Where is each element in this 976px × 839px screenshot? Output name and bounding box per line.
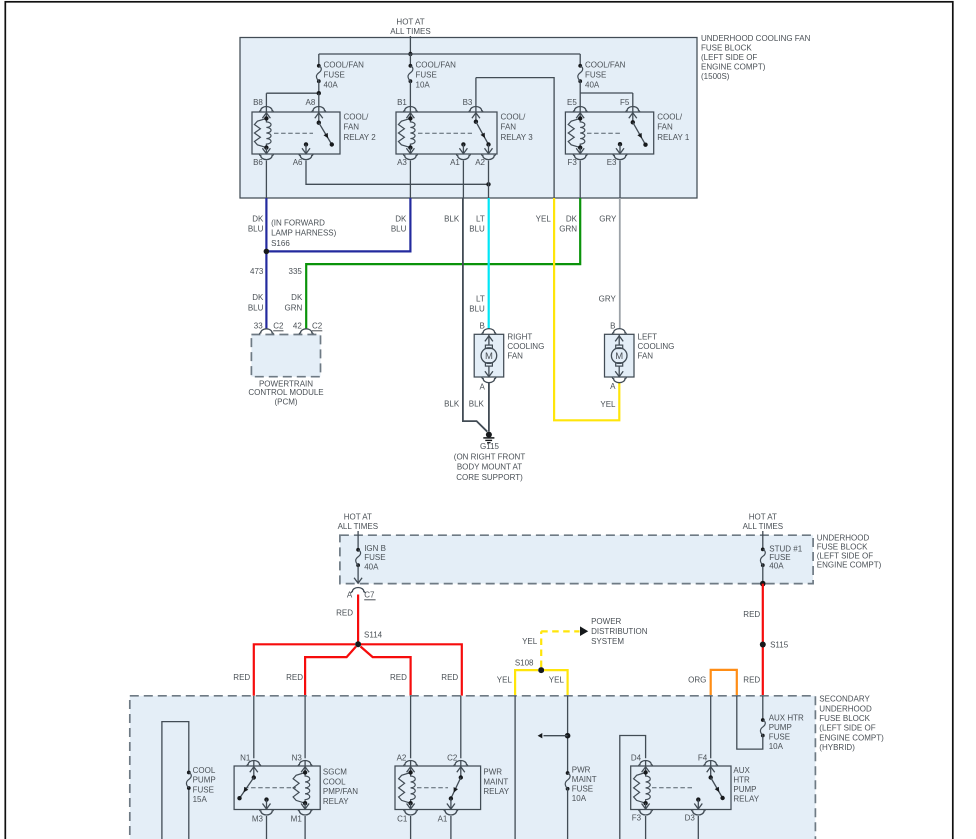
svg-text:S114: S114 — [364, 631, 383, 640]
svg-text:BLK: BLK — [469, 399, 485, 408]
label BLK pair — [444, 399, 484, 408]
svg-text:DISTRIBUTION: DISTRIBUTION — [591, 627, 648, 636]
svg-text:S108: S108 — [515, 658, 534, 667]
svg-text:(1500S): (1500S) — [701, 72, 730, 81]
wire: RED S114 mid-left branch — [305, 647, 356, 696]
wire: N1 feed inside block — [253, 696, 255, 759]
PCM pin 42 C2 — [293, 322, 323, 335]
svg-text:C2: C2 — [312, 322, 323, 331]
svg-text:M: M — [615, 351, 623, 362]
PWR MAINT relay contact A1 — [447, 799, 455, 810]
svg-text:SYSTEM: SYSTEM — [591, 637, 624, 646]
wire: E3 inside block — [619, 161, 621, 199]
svg-text:E5: E5 — [567, 98, 577, 107]
svg-text:335: 335 — [289, 267, 303, 276]
svg-text:BODY MOUNT AT: BODY MOUNT AT — [457, 463, 522, 472]
label ORG — [688, 676, 706, 685]
svg-text:HOT AT: HOT AT — [344, 513, 372, 522]
node: HOT AT ALL TIMES (IGN B feed) — [338, 513, 378, 532]
label YEL (dashed) — [522, 637, 538, 646]
fuse: COOL/FAN FUSE 40A (right) — [578, 54, 626, 93]
svg-text:PUMP: PUMP — [733, 785, 756, 794]
svg-text:COOL/: COOL/ — [657, 113, 683, 122]
svg-text:42: 42 — [293, 322, 302, 331]
wire: DK BLU from B6 to PCM pin 33 (ckt 473) — [265, 198, 267, 330]
svg-text:M3: M3 — [252, 815, 264, 824]
svg-text:(IN FORWARD: (IN FORWARD — [271, 218, 325, 227]
svg-text:40A: 40A — [585, 81, 600, 90]
label RED (lower) — [743, 676, 760, 685]
label LT BLU (A2) — [469, 215, 485, 234]
left fan pin A — [610, 377, 626, 391]
svg-text:33: 33 — [254, 322, 263, 331]
relay COOL/FAN RELAY 2 (box) — [252, 112, 376, 154]
svg-text:FUSE BLOCK: FUSE BLOCK — [701, 43, 752, 52]
svg-text:DK: DK — [566, 215, 578, 224]
relay 3 contact A1 — [459, 142, 467, 154]
svg-text:PMP/FAN: PMP/FAN — [323, 787, 358, 796]
relay 1 pin E3 cup — [607, 154, 627, 167]
label DK BLU (A3) — [391, 215, 407, 234]
wire: fuse3 to E5/F5 branch — [580, 93, 633, 107]
AUX relay pin F3 — [632, 803, 653, 839]
wire: RED continuation to AUX HTR PUMP FUSE — [762, 696, 764, 720]
svg-text:ORG: ORG — [688, 676, 706, 685]
wire: A2 feed inside block — [410, 696, 412, 759]
svg-text:D4: D4 — [631, 753, 642, 762]
svg-text:A1: A1 — [438, 815, 448, 824]
underhood fuse block (dashed box) — [340, 533, 882, 583]
wire: RED from connector A to S114 — [357, 595, 359, 645]
svg-text:40A: 40A — [324, 81, 339, 90]
fuse: IGN B FUSE 40A — [356, 544, 386, 571]
relay 3 pin B3 — [463, 98, 483, 122]
svg-text:COOLING: COOLING — [507, 342, 544, 351]
svg-text:PWR: PWR — [572, 765, 591, 774]
svg-text:RELAY 3: RELAY 3 — [501, 133, 534, 142]
svg-text:RED: RED — [336, 609, 353, 618]
wire: AUX fuse out to ORG loop — [737, 696, 763, 749]
svg-text:FUSE: FUSE — [769, 732, 790, 741]
label DK GRN (lower) — [285, 293, 303, 312]
svg-text:GRY: GRY — [599, 215, 617, 224]
relay 2 coil — [254, 116, 271, 150]
relay 1 coil — [568, 116, 585, 150]
relay 3 pin A1 cup — [450, 154, 470, 167]
svg-text:C7: C7 — [364, 591, 375, 600]
SGCM contact M3 — [263, 797, 271, 809]
wire: B3 pin riser — [475, 78, 477, 101]
svg-text:B8: B8 — [253, 98, 263, 107]
svg-text:COOL/FAN: COOL/FAN — [585, 61, 626, 70]
svg-text:HOT AT: HOT AT — [396, 18, 424, 27]
svg-text:S115: S115 — [770, 641, 789, 650]
svg-text:RELAY: RELAY — [483, 787, 509, 796]
relay 3 pin A2 — [475, 145, 495, 167]
wire: YEL S108 right branch — [544, 670, 568, 696]
wire: N3 feed inside block — [304, 696, 306, 759]
svg-text:LT: LT — [476, 215, 485, 224]
PWR MAINT relay pin C1 — [397, 803, 418, 839]
wire: B6 inside block — [265, 161, 267, 199]
svg-text:LAMP HARNESS): LAMP HARNESS) — [271, 229, 337, 238]
svg-text:A1: A1 — [450, 158, 460, 167]
ground G115 — [454, 432, 526, 482]
label BLK (A1) — [444, 215, 460, 224]
svg-text:ALL TIMES: ALL TIMES — [390, 27, 430, 36]
svg-text:POWER: POWER — [591, 617, 621, 626]
svg-text:ALL TIMES: ALL TIMES — [338, 522, 378, 531]
svg-text:COOLING: COOLING — [638, 342, 675, 351]
PWR MAINT relay coil — [399, 770, 416, 805]
svg-text:FAN: FAN — [344, 123, 360, 132]
PWR MAINT relay pin A2 — [397, 753, 418, 772]
svg-text:G115: G115 — [480, 442, 500, 451]
svg-text:COOL/: COOL/ — [344, 113, 370, 122]
PWR MAINT relay pin C2 — [447, 753, 468, 777]
junction S166 — [264, 218, 337, 254]
svg-text:MAINT: MAINT — [572, 775, 597, 784]
SGCM pin M1 — [291, 803, 313, 839]
svg-text:C1: C1 — [397, 815, 408, 824]
svg-text:DK: DK — [291, 293, 303, 302]
svg-text:M1: M1 — [291, 815, 303, 824]
svg-text:(PCM): (PCM) — [274, 398, 297, 407]
labels YEL pair — [497, 676, 565, 685]
label DK BLU (lower left) — [248, 293, 264, 312]
wire: IGN B fuse to connector A — [354, 565, 362, 583]
svg-text:LEFT: LEFT — [638, 333, 658, 342]
relay 2 switch blade — [317, 121, 334, 147]
svg-text:GRY: GRY — [599, 295, 617, 304]
wire: DK BLU from A3 to S166 — [269, 198, 410, 251]
wire: RED S114 left branch — [254, 644, 355, 696]
svg-text:BLU: BLU — [469, 225, 485, 234]
fuse: COOL/FAN FUSE 40A (left) — [316, 54, 364, 93]
svg-text:IGN B: IGN B — [364, 544, 386, 553]
svg-text:RED: RED — [233, 673, 250, 682]
svg-text:F4: F4 — [698, 753, 708, 762]
wire: A1 inside block — [462, 161, 464, 199]
svg-text:LT: LT — [476, 295, 485, 304]
svg-text:FAN: FAN — [507, 351, 523, 360]
svg-text:A: A — [347, 591, 353, 600]
svg-text:C2: C2 — [273, 322, 284, 331]
svg-text:D3: D3 — [685, 814, 696, 823]
AUX relay contact D3 — [694, 797, 702, 809]
relay PWR MAINT RELAY (box) — [395, 766, 510, 810]
svg-text:COOL: COOL — [323, 777, 346, 786]
svg-text:RED: RED — [441, 673, 458, 682]
relay 3 pin B1 — [397, 98, 417, 118]
relay 1 contact E3 — [616, 142, 624, 154]
relay 1 switch blade — [631, 120, 648, 147]
SGCM pin N3 — [292, 753, 313, 772]
PCM pin 33 C2 — [254, 322, 284, 335]
svg-text:RED: RED — [390, 673, 407, 682]
PWR MAINT relay pin A1 cup — [438, 810, 458, 839]
svg-text:ENGINE COMPT): ENGINE COMPT) — [817, 560, 882, 569]
svg-text:GRN: GRN — [285, 303, 303, 312]
wire: DK GRN from F3 to PCM pin 42 (ckt 335) — [306, 198, 580, 330]
motor: LEFT COOLING FAN — [605, 333, 675, 377]
svg-text:AUX: AUX — [733, 766, 750, 775]
wire: RED S114 mid-right branch — [361, 647, 411, 696]
svg-text:UNDERHOOD COOLING FAN: UNDERHOOD COOLING FAN — [701, 34, 811, 43]
svg-text:N3: N3 — [292, 753, 303, 762]
relay 2 pin B6 — [253, 148, 273, 167]
svg-text:N1: N1 — [240, 753, 251, 762]
junction + arrow tap — [538, 733, 571, 739]
relay 2 pin A8 — [306, 98, 326, 123]
svg-text:GRN: GRN — [559, 225, 577, 234]
svg-text:DK: DK — [252, 215, 264, 224]
svg-text:FUSE: FUSE — [324, 71, 345, 80]
SGCM pin M3 cup — [252, 810, 274, 839]
relay 3 pin A3 — [397, 148, 417, 167]
svg-text:BLU: BLU — [391, 225, 407, 234]
wire: C2 feed inside block — [460, 696, 462, 759]
svg-text:B6: B6 — [253, 158, 263, 167]
wire: YEL-2 to PWR MAINT FUSE — [567, 696, 569, 773]
wire: ORG jumper loop — [711, 670, 737, 696]
wire: B3 feed jog (up-over-down to YEL exit) — [476, 78, 554, 198]
svg-text:AUX HTR: AUX HTR — [769, 714, 804, 723]
AUX relay pin D4 — [631, 753, 653, 772]
labels RED x4 — [233, 673, 458, 682]
svg-text:FUSE BLOCK: FUSE BLOCK — [817, 542, 868, 551]
wire: F4 feed inside block — [710, 696, 712, 759]
svg-text:C2: C2 — [447, 753, 458, 762]
svg-text:YEL: YEL — [522, 637, 538, 646]
relay SGCM COOL PMP/FAN RELAY (box) — [234, 766, 358, 810]
svg-text:YEL: YEL — [549, 676, 565, 685]
svg-text:BLK: BLK — [444, 215, 460, 224]
relay 2 contact to A6 — [302, 142, 310, 154]
svg-text:ENGINE COMPT): ENGINE COMPT) — [819, 733, 884, 742]
svg-text:FAN: FAN — [638, 351, 654, 360]
svg-text:HTR: HTR — [733, 775, 750, 784]
svg-text:CONTROL MODULE: CONTROL MODULE — [248, 388, 323, 397]
svg-text:RELAY: RELAY — [733, 795, 759, 804]
svg-text:BLU: BLU — [248, 225, 264, 234]
svg-text:YEL: YEL — [600, 400, 616, 409]
svg-text:ENGINE COMPT): ENGINE COMPT) — [701, 63, 766, 72]
svg-text:RIGHT: RIGHT — [507, 333, 532, 342]
svg-text:SECONDARY: SECONDARY — [819, 695, 870, 704]
svg-text:A8: A8 — [306, 98, 316, 107]
svg-text:B1: B1 — [397, 98, 407, 107]
relay 1 pin F3 — [567, 148, 587, 167]
svg-text:A3: A3 — [397, 158, 407, 167]
relay 2 pin A6 cup — [293, 154, 313, 167]
svg-text:DK: DK — [395, 215, 407, 224]
junction S115 — [760, 641, 789, 650]
wire: feed from HOT AT ALL TIMES into block — [408, 36, 412, 56]
AUX relay pin D3 cup — [685, 810, 706, 839]
svg-text:COOL/FAN: COOL/FAN — [416, 61, 457, 70]
svg-text:(ON RIGHT FRONT: (ON RIGHT FRONT — [454, 453, 526, 462]
fuse: COOL PUMP FUSE 15A — [186, 766, 215, 804]
junction S108 — [515, 658, 544, 673]
svg-text:A: A — [479, 382, 485, 391]
svg-text:UNDERHOOD: UNDERHOOD — [819, 704, 872, 713]
svg-text:A6: A6 — [293, 158, 303, 167]
label POWER DISTRIBUTION SYSTEM — [591, 617, 648, 646]
svg-text:(LEFT SIDE OF: (LEFT SIDE OF — [701, 53, 757, 62]
fuse: AUX HTR PUMP FUSE 10A — [760, 714, 804, 751]
svg-text:FUSE: FUSE — [572, 785, 593, 794]
left fan pin B — [610, 321, 626, 334]
svg-text:FUSE: FUSE — [364, 553, 385, 562]
relay 3 coil — [398, 116, 415, 150]
svg-text:RELAY 2: RELAY 2 — [344, 133, 377, 142]
AUX relay switch blade — [709, 775, 725, 800]
wire: GRY from E3 to left fan pin B — [619, 198, 621, 329]
label GRY (lower) — [599, 295, 617, 304]
PWR MAINT relay switch blade — [449, 775, 463, 800]
right fan pin A — [479, 377, 496, 391]
AUX relay pin F4 — [698, 753, 718, 777]
label 335 — [289, 267, 303, 276]
wire: cool pump fuse loop — [162, 722, 189, 839]
junction S114 — [355, 631, 383, 648]
svg-text:COOL: COOL — [193, 766, 216, 775]
svg-text:E3: E3 — [607, 158, 617, 167]
label DK BLU (left) — [248, 215, 264, 234]
svg-text:(LEFT SIDE OF: (LEFT SIDE OF — [817, 551, 873, 560]
relay COOL/FAN RELAY 1 (box) — [565, 112, 690, 154]
svg-text:(LEFT SIDE OF: (LEFT SIDE OF — [819, 724, 875, 733]
wire: YEL from block to left fan pin A — [554, 198, 619, 420]
svg-text:10A: 10A — [416, 81, 431, 90]
label RED (C7) — [336, 609, 353, 618]
AUX relay coil — [634, 770, 651, 805]
svg-text:COOL/: COOL/ — [501, 113, 527, 122]
svg-text:STUD #1: STUD #1 — [769, 544, 802, 553]
motor: RIGHT COOLING FAN — [474, 333, 544, 377]
svg-text:B: B — [610, 321, 615, 330]
wire: D4 feed riser — [620, 736, 646, 839]
svg-text:40A: 40A — [769, 562, 784, 571]
wire: A6 to A2 jog — [306, 161, 491, 187]
svg-text:10A: 10A — [769, 742, 784, 751]
SGCM switch blade — [237, 775, 256, 800]
svg-text:B3: B3 — [463, 98, 473, 107]
node: HOT AT ALL TIMES (STUD 1 feed) — [743, 513, 783, 532]
wire: YEL-1 inside block — [514, 696, 516, 839]
svg-text:RELAY: RELAY — [323, 797, 349, 806]
label YEL (top) — [536, 215, 552, 224]
fuse: PWR MAINT FUSE 10A — [565, 765, 597, 839]
svg-text:FAN: FAN — [501, 123, 517, 132]
svg-text:MAINT: MAINT — [483, 777, 508, 786]
svg-text:FUSE BLOCK: FUSE BLOCK — [819, 714, 870, 723]
svg-text:F3: F3 — [567, 158, 577, 167]
secondary underhood fuse block (dashed box) — [130, 695, 884, 839]
wire: F3 inside block — [579, 161, 581, 199]
svg-text:S166: S166 — [271, 239, 290, 248]
svg-text:B: B — [479, 321, 484, 330]
svg-text:RELAY 1: RELAY 1 — [657, 133, 690, 142]
svg-text:(HYBRID): (HYBRID) — [819, 743, 855, 752]
wire: fuse1 to B8/A8 branch — [266, 91, 321, 107]
svg-text:BLU: BLU — [248, 303, 264, 312]
svg-text:473: 473 — [250, 267, 264, 276]
wire: bus between fuses — [319, 53, 580, 55]
svg-text:A: A — [610, 382, 616, 391]
wire: BLK from A1 to ground splice — [463, 198, 487, 432]
svg-text:FUSE: FUSE — [769, 553, 790, 562]
wire: RED S114 right branch — [361, 644, 462, 696]
relay AUX HTR PUMP RELAY (box) — [631, 766, 760, 810]
label LT BLU (lower) — [469, 295, 485, 314]
wire: RED from STUD1 to S115 and into block — [762, 584, 764, 696]
underhood cooling fan fuse block (box) — [240, 38, 697, 199]
svg-text:RED: RED — [743, 676, 760, 685]
node: HOT AT ALL TIMES (top feed) — [390, 18, 430, 37]
wire: feed into STUD 1 fuse — [762, 531, 764, 549]
label DK GRN (F3) — [559, 215, 577, 234]
svg-text:YEL: YEL — [536, 215, 552, 224]
label: underhood cooling fan fuse block — [701, 34, 811, 81]
svg-text:F5: F5 — [620, 98, 630, 107]
wire: A2 inside block — [488, 161, 490, 199]
svg-text:M: M — [485, 351, 493, 362]
svg-text:FUSE: FUSE — [193, 785, 214, 794]
fuse: COOL/FAN FUSE 10A (middle) — [408, 54, 456, 107]
connector pin A / C7 — [347, 588, 376, 600]
relay 3 switch blade — [474, 120, 491, 147]
label RED (stud) — [743, 610, 760, 619]
right fan pin B — [479, 321, 496, 334]
svg-text:CORE SUPPORT): CORE SUPPORT) — [456, 473, 523, 482]
svg-text:BLK: BLK — [444, 399, 460, 408]
relay 1 pin E5 — [567, 98, 587, 118]
svg-text:15A: 15A — [193, 795, 208, 804]
svg-text:ALL TIMES: ALL TIMES — [743, 522, 783, 531]
svg-text:PUMP: PUMP — [769, 723, 792, 732]
svg-text:A2: A2 — [397, 753, 407, 762]
svg-text:FUSE: FUSE — [585, 71, 606, 80]
SGCM coil — [293, 770, 310, 805]
SGCM pin N1 — [240, 753, 261, 777]
svg-text:SGCM: SGCM — [323, 768, 347, 777]
svg-text:F3: F3 — [632, 814, 642, 823]
svg-text:DK: DK — [252, 293, 264, 302]
svg-text:RED: RED — [743, 610, 760, 619]
svg-text:FAN: FAN — [657, 123, 673, 132]
svg-text:10A: 10A — [572, 794, 587, 803]
svg-text:HOT AT: HOT AT — [749, 513, 777, 522]
svg-text:PUMP: PUMP — [193, 776, 216, 785]
wire: A3 inside block — [409, 161, 411, 199]
wire: LT BLU from A2 to right fan pin B — [488, 198, 490, 329]
label 473 — [250, 267, 264, 276]
wire: STUD 1 fuse to block edge — [760, 565, 766, 586]
wire: feed into IGN B fuse — [357, 531, 359, 550]
svg-text:COOL/FAN: COOL/FAN — [324, 61, 365, 70]
svg-text:FUSE: FUSE — [416, 71, 437, 80]
svg-text:UNDERHOOD: UNDERHOOD — [817, 533, 870, 542]
svg-text:40A: 40A — [364, 562, 379, 571]
label GRY (top) — [599, 215, 617, 224]
svg-text:PWR: PWR — [483, 768, 502, 777]
wire: YEL S108 left branch — [515, 670, 538, 696]
svg-text:YEL: YEL — [497, 676, 513, 685]
svg-text:A2: A2 — [475, 158, 485, 167]
svg-text:RED: RED — [286, 673, 303, 682]
